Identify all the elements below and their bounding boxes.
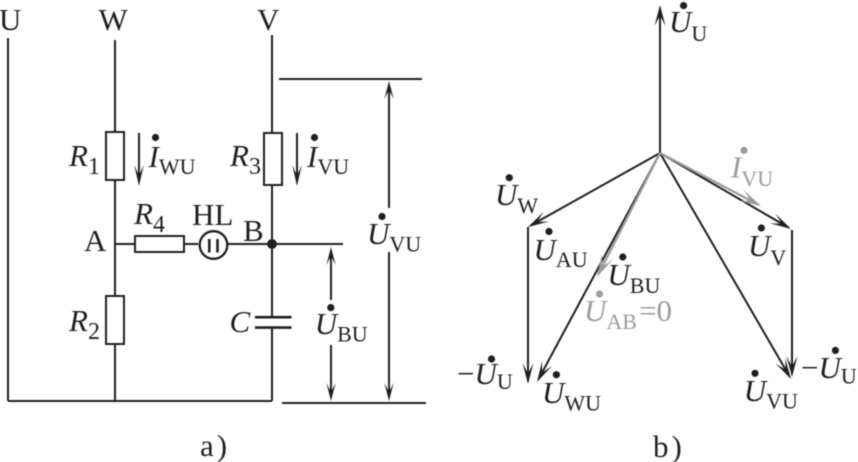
svg-text:V: V: [257, 2, 280, 37]
svg-text:C: C: [230, 304, 251, 339]
svg-text:a): a): [200, 428, 230, 462]
svg-text:A: A: [84, 223, 107, 258]
svg-text:b): b): [653, 429, 685, 462]
svg-text:=0: =0: [639, 293, 672, 328]
svg-text:U: U: [0, 2, 21, 37]
svg-text:B: B: [243, 213, 264, 248]
svg-text:W: W: [99, 2, 129, 37]
svg-text:HL: HL: [192, 197, 233, 232]
